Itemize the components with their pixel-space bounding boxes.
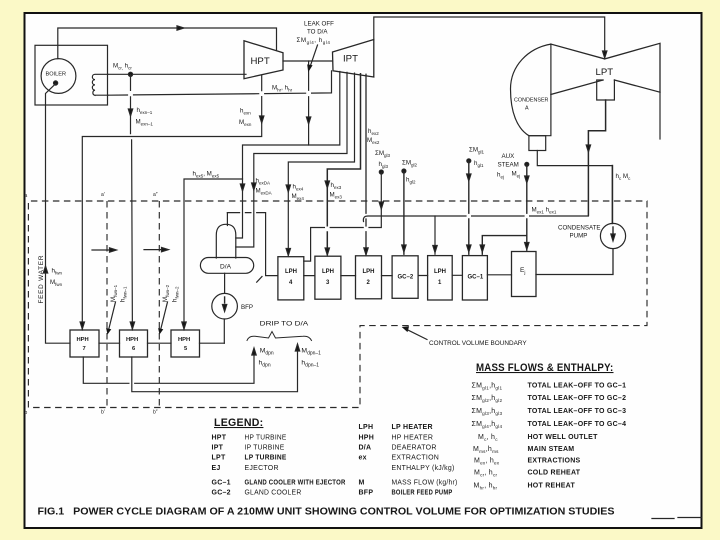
svg-text:HPH: HPH bbox=[126, 337, 138, 343]
boiler B bbox=[41, 59, 76, 94]
legend block bbox=[212, 417, 458, 497]
section plane a-b 2 bbox=[158, 201, 160, 408]
svg-text:CONTROL VOLUME BOUNDARY: CONTROL VOLUME BOUNDARY bbox=[429, 340, 527, 347]
svg-text:a: a bbox=[25, 193, 28, 199]
feed water heater HPH5 bbox=[171, 330, 200, 357]
boiler feed pump BFP bbox=[212, 293, 238, 319]
wire extraction exn HPT to HPH7 bbox=[82, 75, 261, 330]
wire drip HPH6 to deaerator bbox=[132, 345, 298, 392]
svg-text:b′: b′ bbox=[101, 410, 105, 416]
svg-text:a′: a′ bbox=[101, 192, 105, 198]
svg-text:DEAERATOR: DEAERATOR bbox=[392, 445, 437, 452]
wire HPT gland leak-off down bbox=[308, 61, 310, 145]
svg-text:HOT REHEAT: HOT REHEAT bbox=[528, 483, 576, 490]
svg-text:ex: ex bbox=[359, 455, 367, 462]
svg-text:BOILER FEED PUMP: BOILER FEED PUMP bbox=[392, 490, 453, 497]
boiler drum dot bbox=[54, 81, 58, 85]
svg-text:TOTAL LEAK–OFF TO GC–1: TOTAL LEAK–OFF TO GC–1 bbox=[528, 383, 627, 390]
ejector EJ bbox=[512, 252, 537, 297]
wire deaerator to BFP bbox=[224, 273, 226, 293]
svg-text:GC–1: GC–1 bbox=[212, 479, 231, 486]
fwn-1 pointer arrow bbox=[109, 302, 116, 329]
svg-text:BOILER: BOILER bbox=[46, 72, 67, 78]
LPT exhaust box bbox=[597, 80, 615, 100]
scan tick mark bbox=[257, 277, 262, 283]
svg-text:HOT WELL OUTLET: HOT WELL OUTLET bbox=[528, 434, 599, 441]
svg-text:LPH: LPH bbox=[434, 269, 446, 275]
wire LPT right casing drain bbox=[659, 92, 661, 139]
reheater coil bbox=[92, 74, 108, 95]
node Mcr junction bbox=[128, 72, 132, 76]
svg-text:HPT: HPT bbox=[212, 435, 227, 442]
drip brace bbox=[247, 332, 312, 341]
feed water heater HPH6 bbox=[120, 330, 148, 357]
wire hotwell to condensate pump bbox=[611, 166, 613, 224]
svg-text:PUMP: PUMP bbox=[570, 233, 588, 240]
bottom right scan mark bbox=[652, 518, 701, 519]
svg-text:IPT: IPT bbox=[343, 54, 358, 65]
fwn-2 pointer arrow bbox=[161, 302, 168, 329]
gland cooler GC-2 bbox=[392, 256, 418, 298]
flow arrow section a-a2 bbox=[144, 249, 164, 251]
svg-text:MASS FLOW (kg/hr): MASS FLOW (kg/hr) bbox=[392, 479, 458, 486]
condenser A shell bbox=[511, 44, 551, 136]
heater LPH2 bbox=[356, 256, 382, 299]
wire LPH heater string connectors bbox=[304, 274, 512, 277]
svg-text:GC–2: GC–2 bbox=[212, 490, 231, 497]
wire leak-off gl1 to GC-1 bbox=[467, 159, 471, 163]
svg-text:EXTRACTIONS: EXTRACTIONS bbox=[528, 458, 581, 465]
svg-text:GLAND COOLER WITH EJECTOR: GLAND COOLER WITH EJECTOR bbox=[245, 479, 346, 486]
wire extraction ex1 header to LPH1 bbox=[363, 216, 588, 222]
wire extraction ex4 IPT to LPH4 bbox=[288, 73, 354, 255]
wire main steam boiler to HPT bbox=[58, 28, 277, 59]
svg-text:b″: b″ bbox=[153, 410, 158, 416]
svg-text:HPH: HPH bbox=[178, 337, 190, 343]
svg-text:IP TURBINE: IP TURBINE bbox=[245, 445, 285, 452]
svg-text:LPT: LPT bbox=[596, 67, 614, 78]
svg-text:BFP: BFP bbox=[241, 304, 253, 311]
control volume callout arrow bbox=[407, 330, 427, 340]
svg-text:D/A: D/A bbox=[220, 263, 232, 270]
svg-text:HP TURBINE: HP TURBINE bbox=[245, 435, 287, 442]
svg-text:TOTAL LEAK–OFF TO GC–4: TOTAL LEAK–OFF TO GC–4 bbox=[528, 421, 627, 428]
wire LPT exhaust to hotwell leg bbox=[588, 100, 605, 215]
wire leak-off gl3 to LPH2 line bbox=[379, 170, 383, 174]
wire leak-off header to D/A bbox=[236, 72, 340, 239]
svg-text:b: b bbox=[25, 410, 28, 416]
svg-text:M: M bbox=[359, 479, 365, 486]
wire hot reheat boiler to IPT bbox=[108, 71, 332, 95]
svg-text:LP HEATER: LP HEATER bbox=[392, 424, 433, 431]
svg-text:FEED WATER: FEED WATER bbox=[38, 255, 45, 304]
wire drip HPH7 to deaerator bbox=[83, 349, 254, 383]
svg-text:7: 7 bbox=[83, 346, 86, 352]
svg-text:Mc, hc: Mc, hc bbox=[478, 434, 498, 442]
svg-text:FIG.1 POWER CYCLE DIAGRAM OF: FIG.1 POWER CYCLE DIAGRAM OF A 210MW UNI… bbox=[38, 507, 615, 518]
svg-text:ENTHALPY (kJ/kg): ENTHALPY (kJ/kg) bbox=[392, 465, 455, 472]
svg-text:HPH: HPH bbox=[359, 435, 375, 442]
wire extraction exDA IPT to deaerator bbox=[236, 72, 347, 247]
svg-text:LPT: LPT bbox=[212, 455, 226, 462]
svg-text:LEAK OFF: LEAK OFF bbox=[304, 21, 334, 28]
wire IPT to LPT crossover top bbox=[374, 17, 605, 51]
wire feed water line bbox=[46, 84, 225, 344]
heater LPH4 bbox=[278, 257, 304, 300]
condensate pump P1 bbox=[600, 223, 625, 248]
wire hotwell outlet bbox=[537, 151, 612, 166]
wire extraction ex2 IPT to LPH2 bbox=[365, 74, 367, 254]
svg-text:GLAND COOLER: GLAND COOLER bbox=[245, 490, 302, 497]
svg-text:HPH: HPH bbox=[77, 337, 89, 343]
svg-text:GC–1: GC–1 bbox=[468, 275, 484, 281]
svg-text:STEAM: STEAM bbox=[498, 162, 519, 169]
leak-off callout arrow bbox=[310, 45, 317, 66]
heater LPH1 bbox=[428, 256, 453, 300]
svg-text:BFP: BFP bbox=[359, 490, 374, 497]
svg-text:COLD REHEAT: COLD REHEAT bbox=[528, 470, 581, 477]
wire extraction ex5 to HPH5 bbox=[184, 179, 243, 330]
wire BFP to feed line bbox=[223, 319, 225, 343]
svg-text:TOTAL LEAK–OFF TO GC–2: TOTAL LEAK–OFF TO GC–2 bbox=[528, 395, 627, 402]
control volume boundary dashed bbox=[28, 201, 647, 408]
wire HPT-IPT shaft line bbox=[283, 60, 333, 62]
mass flows block bbox=[472, 362, 627, 490]
turbine HPT bbox=[244, 41, 283, 79]
svg-text:MASS FLOWS & ENTHALPY:: MASS FLOWS & ENTHALPY: bbox=[476, 362, 614, 374]
svg-text:A: A bbox=[525, 105, 529, 111]
svg-text:LPH: LPH bbox=[285, 269, 297, 275]
wire leak-off gl2 to GC-2 bbox=[402, 169, 406, 173]
svg-text:CONDENSER: CONDENSER bbox=[514, 97, 549, 103]
svg-text:DRIP TO D/A: DRIP TO D/A bbox=[260, 321, 310, 328]
svg-text:EJ: EJ bbox=[212, 465, 221, 472]
svg-text:TOTAL LEAK–OFF TO GC–3: TOTAL LEAK–OFF TO GC–3 bbox=[528, 408, 627, 415]
wire aux steam to GC-1 and ejector bbox=[525, 162, 529, 166]
svg-text:IPT: IPT bbox=[212, 445, 224, 452]
deaerator dome bbox=[216, 224, 236, 258]
svg-text:LPH: LPH bbox=[363, 269, 375, 275]
turbine IPT bbox=[333, 40, 374, 78]
svg-text:LPH: LPH bbox=[359, 424, 374, 431]
section plane a-b 1 bbox=[106, 201, 108, 408]
deaerator D/A tank bbox=[200, 258, 253, 274]
heater LPH3 bbox=[315, 256, 341, 299]
svg-text:HP HEATER: HP HEATER bbox=[392, 435, 434, 442]
wire condensate header to deaerator bbox=[227, 213, 278, 276]
svg-text:LEGEND:: LEGEND: bbox=[214, 417, 263, 429]
wire extraction ex3 IPT to LPH3 bbox=[327, 74, 360, 255]
svg-text:MAIN STEAM: MAIN STEAM bbox=[528, 446, 575, 453]
wire cold reheat HPT to boiler bbox=[108, 73, 246, 75]
gland cooler GC-1 bbox=[462, 256, 487, 300]
svg-text:TO D/A: TO D/A bbox=[307, 29, 328, 36]
boiler box bbox=[35, 45, 108, 105]
svg-text:GC–2: GC–2 bbox=[398, 275, 414, 281]
condenser hotwell outlet box bbox=[529, 136, 546, 151]
svg-text:LPH: LPH bbox=[322, 269, 334, 275]
svg-text:HPT: HPT bbox=[251, 56, 270, 67]
svg-text:AUX: AUX bbox=[502, 153, 515, 160]
svg-text:D/A: D/A bbox=[359, 445, 372, 452]
feed water heater HPH7 bbox=[70, 330, 99, 357]
wire leak-off into deaerator dome bbox=[226, 213, 228, 226]
wire pump discharge to ejector bbox=[536, 249, 613, 275]
svg-text:a″: a″ bbox=[153, 192, 158, 198]
wire extraction exn-1 to HPH6 bbox=[131, 74, 133, 330]
turbine LPT bowtie bbox=[551, 43, 660, 94]
svg-text:LP TURBINE: LP TURBINE bbox=[245, 455, 287, 462]
svg-text:EJECTOR: EJECTOR bbox=[245, 465, 279, 472]
svg-text:EXTRACTION: EXTRACTION bbox=[392, 455, 440, 462]
flow arrow section a-a1 bbox=[92, 249, 112, 251]
svg-text:CONDENSATE: CONDENSATE bbox=[558, 225, 601, 232]
